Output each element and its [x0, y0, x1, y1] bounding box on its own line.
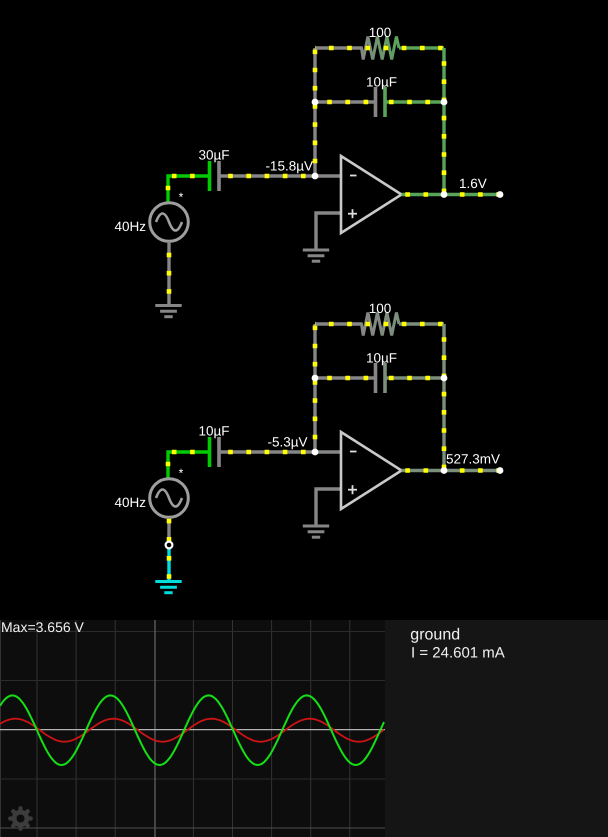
wire current dots [388, 100, 444, 105]
node output junction [441, 467, 448, 474]
post output terminal [497, 467, 504, 474]
capacitor 10uF feedback [376, 363, 386, 393]
svg-text:40Hz: 40Hz [114, 495, 146, 510]
svg-text:*: * [179, 466, 184, 480]
svg-text:*: * [179, 190, 184, 204]
svg-text:527.3mV: 527.3mV [446, 452, 500, 467]
svg-text:100: 100 [369, 25, 392, 40]
node inverting input [312, 173, 319, 180]
wire current dots [168, 176, 208, 203]
svg-text:-15.8µV: -15.8µV [265, 159, 313, 174]
wire current dots [315, 100, 372, 105]
scope lower axis [0, 827, 385, 829]
op-amp U [341, 156, 402, 233]
wire feedback cap right lead [387, 376, 445, 379]
wire current dots [313, 324, 318, 452]
wire inverting input stub [315, 174, 341, 177]
wire resistor left lead [315, 322, 362, 325]
node output junction [441, 191, 448, 198]
scope info panel background [385, 620, 608, 837]
ground at op-amp + input [303, 526, 329, 537]
resistor 100 [347, 37, 399, 60]
wire current dots [167, 518, 172, 542]
wire current dots [168, 452, 208, 479]
circuit canvas background [0, 0, 608, 620]
ground [155, 306, 181, 317]
svg-text:I = 24.601 mA: I = 24.601 mA [411, 644, 505, 661]
wire feedback left vertical [313, 324, 316, 452]
wire source to input cap [168, 176, 208, 203]
op-amp U [341, 432, 402, 509]
capacitor 10uF feedback [376, 87, 386, 117]
wire op-amp output [402, 193, 501, 196]
wire resistor right lead [399, 46, 444, 49]
wire current dots [388, 376, 444, 381]
wire op-amp output [402, 469, 501, 472]
wire current dots [219, 450, 315, 455]
wire feedback cap right lead [387, 100, 445, 103]
svg-text:100: 100 [369, 301, 392, 316]
node feedback right at cap row [441, 99, 448, 106]
wire current dots [402, 468, 501, 473]
svg-text:-5.3µV: -5.3µV [267, 435, 307, 450]
AC voltage source 40Hz [150, 479, 189, 518]
wire input cap to inverting node [219, 174, 315, 177]
wire current dots [402, 192, 501, 197]
wire inverting input stub [315, 450, 341, 453]
capacitor input [210, 161, 220, 191]
svg-text:10µF: 10µF [366, 75, 397, 90]
wire current dots [442, 48, 447, 195]
wire current dots [442, 324, 447, 471]
wire feedback left vertical [313, 48, 316, 176]
svg-text:10µF: 10µF [366, 351, 397, 366]
post output terminal [497, 191, 504, 198]
svg-text:10µF: 10µF [198, 424, 229, 439]
svg-text:40Hz: 40Hz [114, 219, 146, 234]
wire input cap to inverting node [219, 450, 315, 453]
node inverting input [312, 449, 319, 456]
oscilloscope panel background [0, 620, 385, 837]
wire current dots [167, 242, 172, 306]
node feedback left at cap row [312, 375, 319, 382]
wire feedback right vertical [442, 324, 445, 471]
node feedback left at cap row [312, 99, 319, 106]
wire non-inverting input to ground [316, 489, 341, 526]
wire current dots [315, 322, 444, 327]
wire current dots [315, 376, 372, 381]
wire feedback cap left lead [315, 376, 374, 379]
scope grid [1, 620, 350, 837]
wire source to post [167, 518, 170, 542]
wire non-inverting input to ground [316, 213, 341, 250]
scope trace green (voltage) [0, 695, 384, 765]
ground at op-amp + input [303, 250, 329, 261]
node feedback right at cap row [441, 375, 448, 382]
wire current dots [313, 48, 318, 176]
wire resistor left lead [315, 46, 362, 49]
wire current dots [219, 174, 315, 179]
ground (selected) [155, 582, 181, 593]
wire feedback cap left lead [315, 100, 374, 103]
wire source to ground [167, 242, 170, 306]
wire resistor right lead [399, 322, 444, 325]
wire post to ground (selected) [167, 549, 170, 582]
resistor 100 [347, 313, 399, 336]
wire current dots [167, 549, 172, 582]
settings gear icon [8, 806, 33, 831]
scope zero axis [0, 729, 385, 731]
scope time marker line [154, 620, 156, 837]
wire feedback right vertical [442, 48, 445, 195]
svg-text:1.6V: 1.6V [459, 176, 487, 191]
svg-text:Max=3.656 V: Max=3.656 V [1, 619, 85, 635]
post open terminal [166, 542, 173, 549]
wire source to input cap [168, 452, 208, 479]
svg-text:30µF: 30µF [198, 148, 229, 163]
svg-text:ground: ground [410, 627, 460, 644]
capacitor input [210, 437, 220, 467]
scope trace red (current) [0, 719, 384, 742]
AC voltage source 40Hz [150, 203, 189, 242]
wire current dots [315, 46, 444, 51]
